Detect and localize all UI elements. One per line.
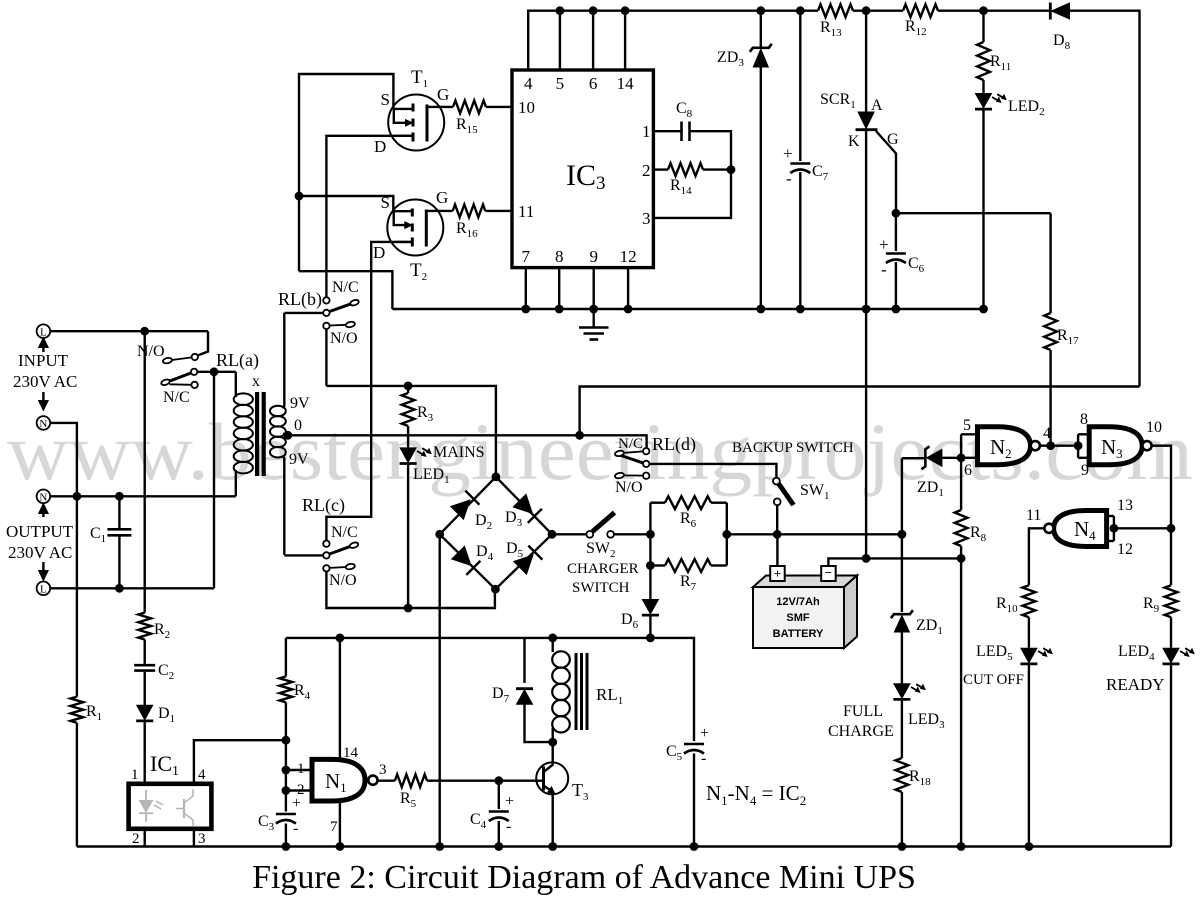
- svg-text:−: −: [825, 565, 832, 580]
- wire N4 pin12 stub: [1107, 540, 1114, 542]
- wire R6 left lead: [650, 502, 665, 504]
- junction N1 pin 2: [282, 786, 291, 795]
- svg-text:K: K: [848, 133, 860, 150]
- wire N3 pin8 stub: [1078, 433, 1089, 435]
- LED3: [894, 684, 910, 698]
- wire N4 output to R10: [1029, 528, 1045, 585]
- resistor R5: [395, 774, 427, 787]
- junction LED1 line / N-O line: [404, 604, 413, 613]
- transistor T2 circle: [387, 200, 443, 256]
- svg-text:0: 0: [294, 417, 302, 434]
- wire C5 to rail: [693, 754, 695, 847]
- junction R6R7 left: [646, 530, 655, 539]
- svg-text:+: +: [774, 566, 781, 581]
- wire R2 branch upper: [143, 331, 145, 612]
- junction bottom bus / pin 12: [624, 305, 633, 314]
- junction R3 top: [404, 382, 413, 391]
- capacitor C1: [107, 528, 131, 531]
- zener diode ZD3: [753, 49, 768, 67]
- wire D6 bottom lead: [649, 616, 651, 638]
- resistor R16: [453, 205, 486, 218]
- wire N1 pin 7: [339, 801, 341, 847]
- junction R14/C8/pin3 loop: [727, 165, 736, 174]
- NAND gate N4: [1054, 511, 1107, 547]
- relay RL(d) N/C contact: [614, 450, 624, 457]
- wire R2 to C2: [143, 640, 145, 664]
- wire C7 branch bottom: [799, 172, 801, 309]
- wire IC3 pin 14 stub: [624, 11, 626, 70]
- LED1 MAINS: [400, 448, 416, 462]
- svg-text:10: 10: [1146, 419, 1162, 436]
- junction battery minus / R8 vertical: [957, 554, 966, 563]
- svg-text:MAINS: MAINS: [433, 444, 485, 461]
- svg-text:-: -: [293, 820, 298, 837]
- svg-text:N: N: [39, 418, 47, 430]
- wire relay supply line: [286, 638, 694, 741]
- IC1 body: [129, 784, 212, 829]
- battery minus terminal: [821, 566, 836, 581]
- svg-text:FULL: FULL: [843, 703, 883, 720]
- transistor T1 circle: [388, 95, 444, 151]
- wire top bus right end down right edge: [1070, 11, 1140, 387]
- junction RL1 / D7 / T3 collector: [548, 738, 557, 747]
- svg-text:CHARGER: CHARGER: [567, 561, 639, 577]
- wire R6R7 left vertical: [649, 503, 651, 566]
- T2 body arrow: [394, 211, 407, 225]
- SCR1 gate lead: [876, 131, 896, 213]
- wire RL(c) pole to 9V bottom tap: [284, 554, 323, 556]
- wire IC1 pin2 to rail: [143, 829, 145, 847]
- relay RL(b) N/O contact: [323, 323, 329, 329]
- wire SW2 to R6R7 block: [614, 533, 650, 535]
- wire R8 top lead: [960, 458, 962, 510]
- wire IC3 pin 3 loop: [653, 170, 731, 218]
- svg-text:N/O: N/O: [329, 572, 357, 589]
- junction bottom bus / pin 7: [521, 305, 530, 314]
- node SCR gate / C6 junction: [892, 209, 901, 218]
- svg-text:230V AC: 230V AC: [8, 543, 72, 562]
- wire R17 top lead: [1049, 213, 1051, 313]
- wire bottom ground bus: [392, 308, 983, 310]
- wire SCR anode from top bus: [865, 11, 867, 112]
- junction 0 tap: [284, 431, 293, 440]
- wire R11 to LED2: [982, 80, 984, 93]
- svg-text:1: 1: [131, 767, 139, 783]
- junction top bus / IC3 pin 14: [621, 6, 630, 15]
- wire IC1 pin3 to rail: [193, 829, 195, 847]
- wire R3 to LED1: [407, 426, 409, 447]
- resistor R9: [1165, 585, 1178, 617]
- junction RL(a) pole / L-output branch: [210, 367, 219, 376]
- junction 0 line / sense branch: [575, 431, 584, 440]
- wire bottom rail: [77, 845, 1171, 847]
- svg-text:1: 1: [642, 122, 651, 141]
- T1 channel bar (dashed): [412, 104, 415, 112]
- junction bottom bus / pin 9: [589, 305, 598, 314]
- wire IC1 pin4 to R4 line: [194, 740, 286, 784]
- wire R10 to LED5: [1028, 617, 1030, 648]
- wire R7 left lead: [650, 564, 665, 566]
- junction main line right end: [898, 530, 907, 539]
- capacitor C8: [680, 122, 683, 142]
- wire R4 top corner: [285, 638, 287, 677]
- resistor R1: [71, 697, 84, 723]
- svg-text:7: 7: [330, 819, 338, 835]
- wire N1 output to R5: [378, 780, 395, 782]
- wire N3 pin9 stub: [1078, 457, 1089, 459]
- wire C1 top stem: [118, 496, 120, 529]
- wire RL(d) pole to SW1: [649, 464, 776, 478]
- NAND gate N1: [312, 759, 365, 801]
- junction common source / T2 source: [295, 192, 304, 201]
- diode D4: [452, 546, 471, 565]
- svg-text:SWITCH: SWITCH: [572, 580, 630, 596]
- wire D7 bottom lead: [525, 704, 553, 742]
- svg-text:BACKUP SWITCH: BACKUP SWITCH: [732, 440, 854, 456]
- wire primary top lead: [235, 372, 237, 397]
- svg-text:14: 14: [617, 74, 635, 93]
- relay RL(c) pole contact: [323, 552, 329, 558]
- terminal L output: [37, 582, 51, 596]
- diode D2: [451, 500, 470, 519]
- wire top supply bus left segment with corner to IC3 pin 4: [528, 11, 818, 70]
- wire RL(a) N/O to L line: [198, 331, 209, 355]
- node 0 tap: [283, 434, 288, 436]
- wire N2 pin6 stub: [961, 457, 977, 459]
- svg-text:+: +: [783, 144, 793, 163]
- wire ZD3 branch top: [760, 11, 762, 48]
- junction base line / C4: [494, 776, 503, 785]
- T2 channel bar (dashed): [411, 209, 414, 217]
- wire LED3 to R18: [901, 701, 903, 759]
- wire RL1 coil bottom lead: [552, 728, 554, 742]
- junction bottom bus / C6: [892, 305, 901, 314]
- IC1 internal LED: [145, 790, 147, 801]
- svg-text:12V/7Ah: 12V/7Ah: [776, 596, 820, 608]
- bridge edge LR: [495, 534, 552, 589]
- svg-text:11: 11: [1026, 507, 1041, 524]
- LED2: [976, 94, 992, 108]
- svg-text:N/C: N/C: [331, 524, 358, 541]
- junction main line / SW1-battery: [773, 530, 782, 539]
- wire R6 right lead: [711, 502, 727, 504]
- junction N line / C1: [115, 492, 124, 501]
- svg-text:S: S: [381, 90, 390, 109]
- LED4 emission arrows: [1180, 651, 1188, 656]
- wire main line R6R7 to ZD1 branch: [727, 533, 902, 535]
- wire R14 to loop vertical: [703, 168, 731, 170]
- junction SCR cathode line / battery minus line: [862, 554, 871, 563]
- svg-text:3: 3: [379, 762, 387, 778]
- bridge edge LL: [440, 534, 496, 589]
- relay RL(d) pole contact: [643, 461, 649, 467]
- junction top bus / SCR1: [862, 6, 871, 15]
- wire battery plus stem: [776, 534, 778, 566]
- T1 gate bar: [426, 105, 429, 142]
- junction rail / C3: [282, 842, 291, 851]
- bridge edge UL: [440, 477, 496, 535]
- svg-text:4: 4: [198, 767, 206, 783]
- junction top bus / R11: [979, 6, 988, 15]
- junction rail / T3 emitter: [548, 842, 557, 851]
- capacitor C6: [886, 252, 906, 255]
- NAND gate N2: [978, 427, 1031, 465]
- wire N input to output-N line: [50, 423, 77, 496]
- svg-text:9V: 9V: [289, 451, 309, 468]
- wire RL(a) pole to junction: [197, 371, 236, 373]
- junction top bus / IC3 pin 6: [589, 6, 598, 15]
- resistor R3: [402, 393, 415, 426]
- wire top bus between R13 and R12: [853, 9, 903, 11]
- junction D6 / relay supply line: [646, 634, 655, 643]
- junction rail / C4: [494, 842, 503, 851]
- svg-text:+: +: [505, 793, 514, 810]
- junction rail / bridge-left line: [435, 842, 444, 851]
- T2 drain lead: [394, 241, 412, 243]
- wire IC3 pin 7 stub: [525, 268, 527, 309]
- wire N2 out to N3 in: [1040, 445, 1078, 447]
- transistor T3 circle: [536, 762, 568, 794]
- wire RL(b)N/O - R3 - bridge line: [326, 386, 496, 477]
- svg-text:-: -: [506, 818, 511, 835]
- resistor R7: [665, 559, 711, 572]
- svg-text:7: 7: [522, 247, 531, 266]
- node bridge bottom vertex: [491, 585, 500, 594]
- svg-text:N/C: N/C: [163, 389, 190, 406]
- LED2 emission arrows: [992, 97, 1000, 102]
- wire RL1 coil top lead: [552, 638, 554, 652]
- T1 drain lead: [395, 135, 413, 137]
- svg-text:N/O: N/O: [615, 479, 643, 496]
- wire LED4 to rail corner: [1170, 665, 1172, 847]
- N2 output bubble: [1031, 441, 1040, 450]
- wire R5 to T3 base: [427, 780, 544, 782]
- wire T2 source corner: [299, 196, 393, 211]
- svg-text:9: 9: [589, 247, 598, 266]
- wire C4 stem: [498, 781, 500, 809]
- svg-text:2: 2: [132, 831, 140, 847]
- T3 base bar: [542, 767, 545, 791]
- wire C8 to loop corner: [690, 131, 732, 169]
- svg-text:14: 14: [343, 745, 359, 761]
- junction rail / R8 line: [957, 842, 966, 851]
- SCR1: [858, 112, 874, 129]
- junction supply line / N1 pin14: [336, 634, 345, 643]
- relay RL(a) N/C contact: [170, 383, 192, 386]
- svg-text:N: N: [39, 492, 47, 504]
- wire D6 top lead: [649, 566, 651, 600]
- junction rail / C5: [690, 842, 699, 851]
- wire LED2 to bottom bus: [982, 110, 984, 309]
- wire IC3 pin 5 stub: [559, 11, 561, 70]
- svg-text:9V: 9V: [290, 395, 310, 412]
- resistor R11: [977, 42, 990, 80]
- N4 output bubble: [1044, 524, 1053, 533]
- relay RL(b) pole contact: [323, 310, 329, 316]
- wire R7 right lead: [711, 564, 727, 566]
- resistor R6: [665, 496, 711, 509]
- T1 source lead: [393, 108, 413, 110]
- wire R6R7 right vertical: [726, 503, 728, 566]
- input arrow down: [42, 392, 44, 400]
- wire R8 bottom to rail: [960, 546, 962, 847]
- wire R3 top lead: [407, 386, 409, 393]
- svg-text:Figure 2: Circuit Diagram of A: Figure 2: Circuit Diagram of Advance Min…: [252, 859, 916, 896]
- switch SW1 lever: [779, 484, 794, 506]
- junction N1 pin 1: [282, 766, 291, 775]
- relay RL(d) lever: [621, 456, 643, 463]
- LED3 emission arrows: [911, 687, 919, 692]
- resistor R15: [453, 101, 486, 114]
- wire ZD1 anode vertical: [901, 458, 903, 612]
- svg-text:N/O: N/O: [137, 343, 165, 360]
- diode D6: [642, 600, 658, 614]
- node bridge left vertex: [435, 530, 444, 539]
- relay RL(a) pole contact: [191, 369, 197, 375]
- wire D7 top lead: [523, 638, 525, 683]
- svg-text:RL(b): RL(b): [278, 289, 322, 310]
- ground symbol: [593, 309, 595, 327]
- wire RL(b) pole to 9V tap: [284, 312, 323, 314]
- T2 source lead: [393, 210, 412, 212]
- relay RL(b) N/C contact: [323, 297, 329, 303]
- transformer secondary winding: [270, 406, 286, 417]
- svg-text:8: 8: [555, 247, 564, 266]
- wire N4 inputs to R9 line: [1114, 527, 1171, 529]
- svg-text:5: 5: [963, 417, 971, 434]
- output arrow up: [42, 512, 44, 517]
- wire SCR cathode down: [865, 130, 867, 559]
- svg-text:11: 11: [518, 202, 534, 221]
- svg-text:D: D: [374, 137, 386, 156]
- junction top bus / ZD3: [756, 6, 765, 15]
- wire IC3 pin 6 stub: [592, 11, 594, 70]
- wire ZD3 branch bottom: [760, 67, 762, 309]
- relay RL(d) N/O contact: [614, 472, 624, 479]
- wire IC3 pin 12 stub: [627, 268, 629, 309]
- wire C7 branch top: [799, 11, 801, 161]
- wire N2 input bracket: [960, 434, 962, 458]
- wire sense branch up and right: [580, 387, 1140, 436]
- wire R17 bottom lead: [1049, 350, 1051, 446]
- wire primary bottom lead: [235, 470, 237, 496]
- junction rail / R18: [898, 842, 907, 851]
- svg-text:OUTPUT: OUTPUT: [6, 522, 74, 541]
- junction top bus / IC3 pin 5: [556, 6, 565, 15]
- svg-text:N/C: N/C: [618, 436, 643, 452]
- relay coil RL1: [552, 651, 570, 667]
- capacitor C5: [684, 743, 704, 746]
- switch SW2 lever: [593, 513, 615, 532]
- svg-text:SMF: SMF: [786, 612, 810, 624]
- svg-text:3: 3: [642, 209, 651, 228]
- wire LED5 to rail: [1028, 665, 1030, 847]
- svg-text:BATTERY: BATTERY: [773, 628, 824, 640]
- capacitor C4: [489, 810, 509, 813]
- wire IC3 pin 2 stub to R14: [653, 168, 668, 170]
- wire SW1 to main line: [776, 505, 778, 534]
- wire RL(c) N/C up lead: [325, 540, 327, 542]
- node bridge top vertex: [492, 472, 501, 481]
- T3 emitter lead: [544, 786, 553, 792]
- svg-text:1: 1: [297, 761, 305, 777]
- junction N4 input line / R9 line: [1167, 524, 1176, 533]
- NAND gate N3: [1089, 427, 1142, 465]
- capacitor C7: [790, 162, 810, 165]
- wire RL(b) N/O down to R3 line: [325, 329, 327, 386]
- svg-text:12: 12: [1117, 541, 1133, 558]
- relay RL(c) N/C contact: [323, 541, 329, 547]
- junction N3 input bracket: [1074, 441, 1083, 450]
- wire C1 bottom stem: [118, 535, 120, 588]
- wire common source to bottom bus: [299, 271, 392, 309]
- junction N2 out / R17: [1046, 441, 1055, 450]
- junction L-out line / C1: [115, 584, 124, 593]
- svg-text:230V AC: 230V AC: [13, 372, 77, 391]
- resistor R13: [818, 4, 853, 17]
- wire RL(c) N/O down and right: [326, 572, 495, 609]
- svg-text:5: 5: [556, 74, 565, 93]
- transformer core: [255, 392, 259, 476]
- input arrow up: [42, 346, 44, 352]
- wire gate node to R17: [896, 212, 1051, 214]
- output arrow down: [42, 562, 44, 570]
- terminal N input: [37, 416, 51, 430]
- relay RL(b) lever: [329, 304, 351, 312]
- svg-text:CUT OFF: CUT OFF: [963, 672, 1024, 688]
- wire T1 drain down to RL(b) N/C: [326, 136, 412, 298]
- wire ZD1 to N2 pin 6: [942, 457, 961, 459]
- zener diode ZD1 (full charge): [894, 616, 909, 632]
- svg-text:+: +: [879, 235, 889, 254]
- svg-text:13: 13: [1117, 497, 1133, 514]
- svg-text:2: 2: [642, 161, 651, 180]
- terminal N output: [37, 490, 51, 504]
- resistor R10: [1023, 585, 1036, 617]
- wire N1 pin2 stub: [286, 789, 312, 791]
- LED4: [1163, 648, 1179, 662]
- IC1 internal transistor: [183, 799, 185, 818]
- wire N1 pin1 stub: [286, 769, 312, 771]
- wire C4 to rail: [498, 821, 500, 847]
- wire IC3 pin 8 stub: [558, 268, 560, 309]
- resistor R17: [1044, 313, 1057, 350]
- svg-text:-: -: [881, 260, 887, 279]
- wire zener to LED3: [901, 632, 903, 684]
- wire LED1 to RL(c) N/O line: [407, 463, 409, 608]
- wire N3 out down to N4/R9: [1152, 446, 1171, 586]
- diode D3: [513, 494, 532, 513]
- svg-text:A: A: [871, 97, 883, 114]
- wire C3 to rail: [285, 824, 287, 847]
- svg-text:G: G: [436, 188, 448, 207]
- LED5 emission arrows: [1038, 651, 1046, 656]
- relay RL(c) lever: [329, 546, 350, 554]
- wire R9 to LED4: [1170, 617, 1172, 648]
- wire top bus between R12 and D8: [938, 9, 1050, 11]
- junction bottom bus / C7: [796, 305, 805, 314]
- node bridge right vertex: [548, 530, 557, 539]
- wire RL(a) pole down to L output line: [213, 372, 215, 589]
- battery plus terminal: [770, 566, 785, 581]
- wire R11 top: [982, 11, 984, 42]
- resistor R14: [668, 163, 703, 176]
- wire C6 bottom: [895, 262, 897, 309]
- wire R4 bottom to N1 inputs and C3: [285, 702, 287, 811]
- svg-text:G: G: [887, 131, 899, 148]
- wire IC3 pin 1 stub to C8: [653, 130, 681, 132]
- svg-text:CHARGE: CHARGE: [828, 723, 894, 740]
